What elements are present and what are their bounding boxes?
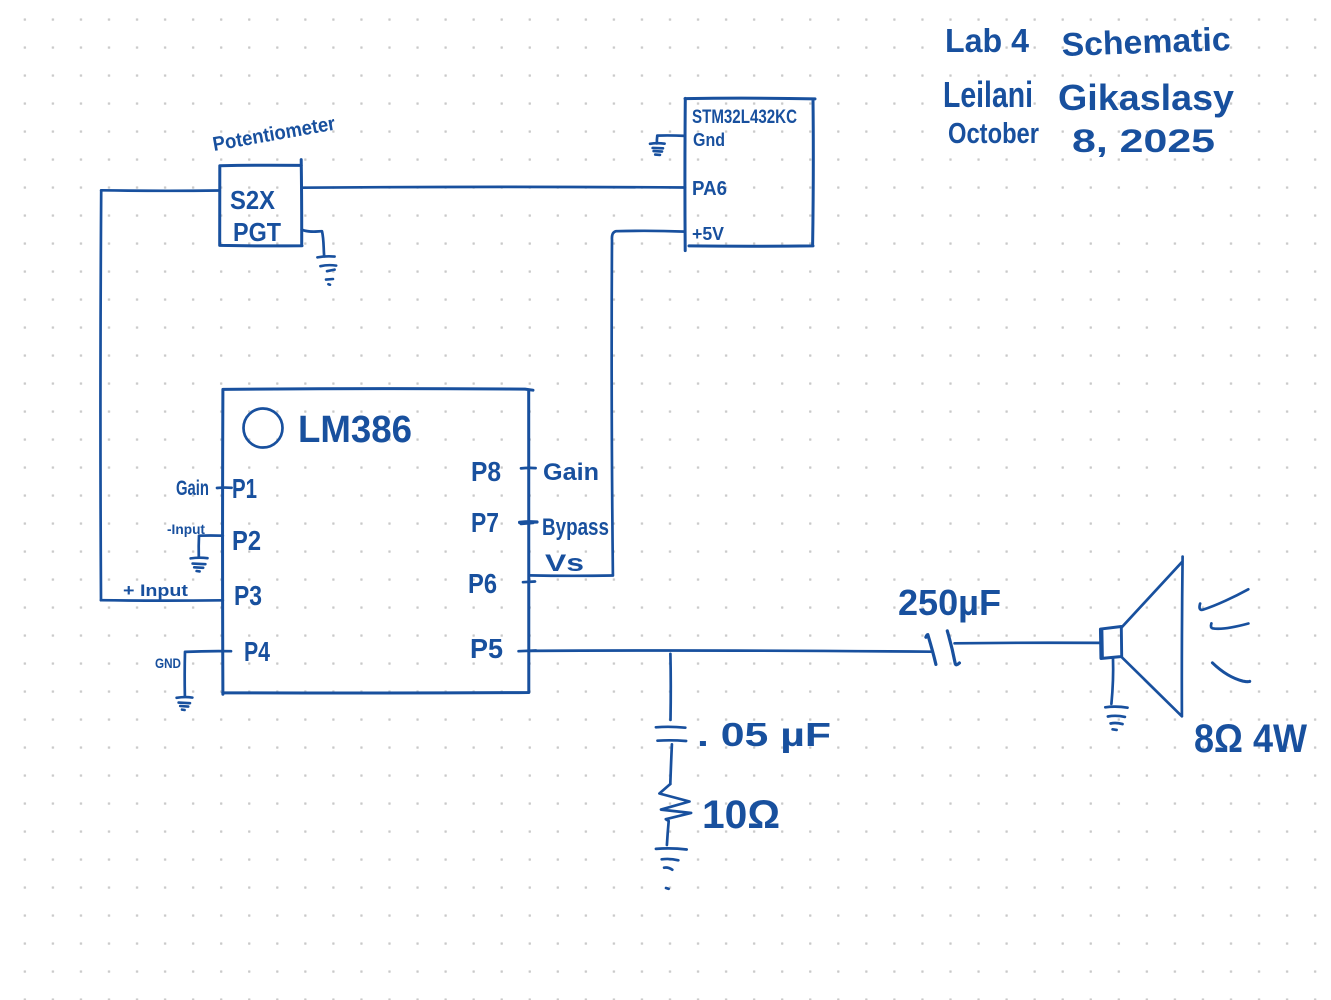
svg-text:GND: GND bbox=[155, 655, 181, 671]
svg-text:P4: P4 bbox=[244, 636, 270, 667]
pin tick P1 bbox=[217, 486, 232, 489]
ground (potentiometer) bbox=[317, 256, 336, 284]
svg-text:+ Input: + Input bbox=[123, 581, 188, 600]
svg-text:P7: P7 bbox=[471, 507, 499, 538]
wire potentiometer wiper to PA6 bbox=[302, 186, 685, 190]
svg-text:Gain: Gain bbox=[543, 459, 599, 486]
potentiometer box S2X PGT bbox=[220, 160, 302, 246]
pin tick P6 bbox=[523, 580, 535, 583]
svg-text:250µF: 250µF bbox=[898, 582, 1001, 623]
svg-text:Gikaslasy: Gikaslasy bbox=[1058, 77, 1234, 118]
svg-text:Vs: Vs bbox=[545, 550, 584, 577]
svg-text:Gnd: Gnd bbox=[693, 130, 725, 150]
capacitor C2 .05uF plates bbox=[656, 727, 686, 741]
wire P2 to ground bbox=[199, 536, 223, 557]
pin tick P5 bbox=[519, 649, 536, 652]
op-amp U1 LM386 box bbox=[223, 389, 533, 695]
wire potentiometer lower terminal to ground bbox=[302, 230, 325, 257]
wire left vertical down to +Input bbox=[99, 190, 102, 600]
speaker LS1 cone bbox=[1122, 557, 1183, 717]
capacitor C1 250uF plates bbox=[926, 631, 960, 665]
ground (P2) bbox=[191, 558, 208, 572]
svg-text:8Ω 4W: 8Ω 4W bbox=[1194, 717, 1307, 761]
svg-text:Schematic: Schematic bbox=[1061, 20, 1231, 63]
ground (R1 bottom) bbox=[656, 848, 687, 888]
svg-text:Leilani: Leilani bbox=[943, 74, 1033, 115]
svg-text:S2X: S2X bbox=[230, 185, 276, 215]
wire P4 to ground bbox=[185, 651, 231, 697]
svg-text:+5V: +5V bbox=[692, 224, 724, 244]
ground (STM32 Gnd) bbox=[650, 143, 665, 155]
svg-text:October: October bbox=[948, 118, 1039, 150]
wire P5 output to coupling cap bbox=[529, 650, 931, 651]
svg-text:Lab 4: Lab 4 bbox=[945, 22, 1030, 59]
sound wave arc bottom bbox=[1212, 663, 1249, 682]
wire Gnd pin to ground bbox=[657, 135, 685, 143]
svg-text:P3: P3 bbox=[234, 580, 262, 611]
svg-text:P1: P1 bbox=[232, 473, 257, 504]
wire potentiometer left terminal bbox=[101, 189, 220, 192]
svg-text:Gain: Gain bbox=[176, 477, 209, 500]
svg-text:10Ω: 10Ω bbox=[702, 793, 780, 837]
wire junction down to bypass cap bbox=[669, 654, 672, 720]
svg-text:LM386: LM386 bbox=[298, 409, 412, 451]
svg-text:8, 2025: 8, 2025 bbox=[1072, 123, 1215, 159]
wire +5V down to P6 bbox=[529, 574, 613, 577]
svg-text:P5: P5 bbox=[470, 633, 503, 664]
pin tick P8 bbox=[521, 467, 536, 470]
wire coupling cap to speaker bbox=[955, 641, 1102, 644]
wire cap to resistor bbox=[670, 744, 672, 784]
svg-text:P2: P2 bbox=[232, 525, 261, 556]
IC U2 STM32L432KC box bbox=[685, 98, 815, 250]
svg-text:P6: P6 bbox=[468, 568, 497, 599]
ground (P4) bbox=[177, 697, 193, 710]
svg-text:PGT: PGT bbox=[233, 217, 281, 247]
wire +Input horizontal to P3 bbox=[101, 599, 223, 602]
sound wave arc top bbox=[1200, 589, 1249, 610]
U1 pin-1 indicator circle bbox=[244, 409, 283, 448]
resistor R1 zigzag bbox=[659, 784, 691, 845]
svg-text:P8: P8 bbox=[471, 456, 501, 487]
wire speaker to ground bbox=[1111, 659, 1113, 704]
speaker LS1 driver bbox=[1100, 627, 1121, 659]
svg-text:PA6: PA6 bbox=[692, 178, 727, 200]
sound wave arc middle bbox=[1211, 623, 1248, 628]
pin tick P7 bbox=[520, 522, 537, 524]
svg-text:Bypass: Bypass bbox=[542, 514, 609, 541]
wire +5V from STM32 bbox=[612, 231, 685, 575]
svg-text:STM32L432KC: STM32L432KC bbox=[692, 107, 797, 128]
svg-text:. 05 µF: . 05 µF bbox=[697, 716, 831, 753]
ground (speaker) bbox=[1105, 707, 1127, 730]
